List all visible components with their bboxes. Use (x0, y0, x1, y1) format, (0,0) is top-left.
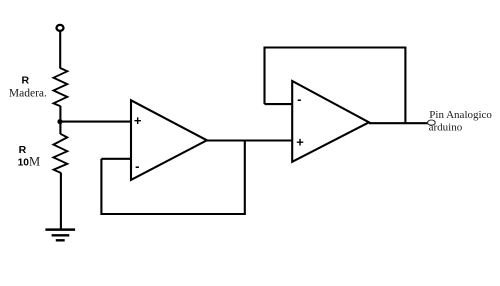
svg-text:-: - (135, 158, 139, 173)
svg-text:10M: 10M (18, 154, 40, 168)
svg-text:+: + (296, 134, 304, 149)
svg-text:+: + (134, 113, 142, 128)
svg-text:R: R (22, 75, 30, 87)
svg-text:R: R (19, 144, 27, 156)
svg-text:Madera.: Madera. (9, 87, 47, 99)
svg-text:arduino: arduino (429, 122, 463, 134)
svg-text:-: - (297, 92, 301, 107)
svg-text:Pin Analogico: Pin Analogico (429, 109, 492, 121)
